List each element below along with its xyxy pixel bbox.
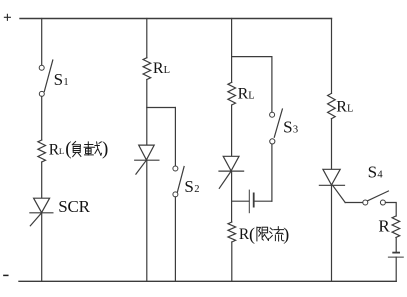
wire S1 to RL [41, 96, 43, 140]
switch S4 [363, 191, 389, 205]
svg-text:R: R [336, 98, 347, 115]
resistor R (limit) [228, 222, 236, 242]
wire branch1 top (rail to S1) [41, 19, 43, 66]
svg-text:R: R [238, 86, 249, 103]
wire S2 to bottom rail [174, 197, 176, 281]
svg-text:(: ( [249, 224, 255, 245]
svg-text:S: S [283, 117, 292, 136]
svg-text:1: 1 [63, 77, 68, 88]
wire R limit to bottom rail [231, 242, 233, 281]
wire branch4 top (rail corner to RL4) [331, 19, 333, 94]
svg-text:): ) [102, 138, 108, 159]
node + (positive supply label) [4, 14, 10, 20]
wire S4 to R corner [385, 203, 396, 217]
wire S3 to battery wire [271, 144, 273, 201]
wire RL2 to thyristor [146, 80, 148, 146]
wire RL to SCR [41, 162, 43, 198]
resistor R4 [392, 216, 400, 238]
wire battery to S3 branch [254, 200, 272, 202]
resistor RL2 [143, 58, 151, 80]
wire branch3 top (rail to RL3) [231, 19, 233, 83]
wire to battery [232, 200, 249, 202]
wire battery to bottom rail [395, 257, 397, 281]
wire bottom rail [19, 280, 396, 282]
wire gate to S4 [345, 202, 363, 204]
svg-text:3: 3 [293, 124, 298, 135]
svg-text:S: S [54, 70, 63, 89]
label S3 [283, 117, 298, 136]
wire thyristor3 down through battery node [231, 171, 233, 222]
resistor RL4 [328, 93, 336, 118]
wire top rail [20, 18, 332, 20]
svg-text:L: L [59, 146, 64, 156]
wire RL4 to thyristor [331, 119, 333, 170]
svg-text:S: S [368, 163, 377, 182]
wire S2 branch down [174, 108, 176, 166]
svg-text:): ) [283, 224, 289, 245]
label RL4 [336, 98, 353, 115]
svg-text:SCR: SCR [58, 197, 90, 216]
svg-text:L: L [347, 103, 353, 114]
switch S3 [270, 109, 283, 144]
wire thyristor2 to bottom rail [146, 160, 148, 281]
wire SCR to bottom rail [41, 213, 43, 281]
switch S1 [39, 60, 53, 96]
thyristor SCR1 [30, 198, 53, 226]
wire branch2 top (rail to RL) [146, 19, 148, 58]
wire RL3 to thyristor [231, 105, 233, 156]
label RL(負載) [49, 138, 109, 159]
label RL2 [153, 60, 170, 77]
label R(限流) [239, 224, 289, 245]
svg-text:R: R [378, 217, 390, 236]
thyristor Q4 [319, 169, 345, 202]
label S4 [368, 163, 384, 182]
svg-text:4: 4 [377, 170, 383, 181]
wire R4 to battery [395, 238, 397, 252]
thyristor Q2 [135, 145, 159, 174]
resistor RL1 (load) [38, 140, 46, 162]
wire thyristor4 to bottom rail [331, 185, 333, 281]
wire junction to S3 branch [232, 56, 272, 58]
switch S2 [173, 166, 184, 197]
battery B4 [388, 253, 403, 258]
wire S3 branch down [271, 57, 273, 113]
svg-text:R: R [153, 60, 164, 77]
resistor RL3 [228, 82, 236, 105]
battery B3 [249, 190, 253, 213]
svg-text:S: S [184, 177, 193, 196]
svg-text:L: L [248, 91, 254, 102]
svg-text:L: L [164, 65, 170, 76]
label RL3 [238, 86, 255, 103]
thyristor Q3 [219, 156, 244, 188]
svg-text:(: ( [65, 138, 71, 159]
svg-text:2: 2 [194, 184, 199, 195]
wire junction to S2 branch [147, 107, 176, 109]
node - (negative supply label) [4, 274, 8, 276]
label S1 [54, 70, 69, 89]
label S2 [184, 177, 199, 196]
